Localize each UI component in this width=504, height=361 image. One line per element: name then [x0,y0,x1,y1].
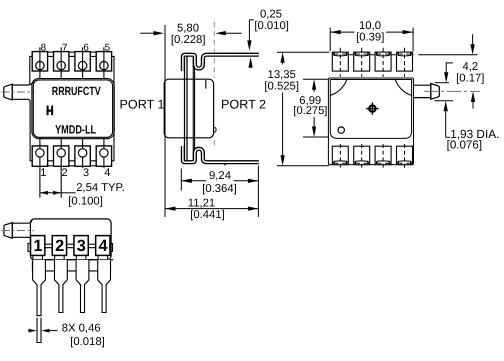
svg-text:6: 6 [83,42,89,53]
svg-text:4,2: 4,2 [462,61,478,73]
svg-text:[0.228]: [0.228] [171,34,206,46]
svg-text:2,54 TYP.: 2,54 TYP. [76,182,125,194]
svg-text:1: 1 [33,237,42,255]
svg-text:9,24: 9,24 [209,170,231,182]
svg-text:3: 3 [83,167,89,179]
svg-text:1: 1 [40,167,46,179]
svg-text:YMDD-LL: YMDD-LL [55,122,96,136]
svg-text:[0.39]: [0.39] [356,31,384,43]
svg-text:4: 4 [104,167,110,179]
svg-text:PORT 1: PORT 1 [120,98,165,112]
svg-text:PORT 2: PORT 2 [221,98,266,112]
svg-text:0,25: 0,25 [260,9,282,21]
svg-text:[0.100]: [0.100] [68,196,103,208]
svg-text:7: 7 [62,42,67,53]
svg-text:[0.010]: [0.010] [254,20,289,32]
svg-text:10,0: 10,0 [359,20,381,32]
svg-text:[0.076]: [0.076] [447,139,482,152]
svg-text:[0.364]: [0.364] [202,183,237,195]
svg-text:[0.441]: [0.441] [190,209,225,221]
svg-text:13,35: 13,35 [268,69,296,81]
svg-text:8: 8 [41,42,47,53]
svg-text:2: 2 [62,167,68,179]
svg-text:5: 5 [105,42,111,53]
svg-text:[0.018]: [0.018] [70,336,105,348]
svg-text:3: 3 [77,237,86,255]
svg-text:2: 2 [55,237,64,255]
svg-text:11,21: 11,21 [188,198,215,210]
svg-text:RRRUFCTV: RRRUFCTV [52,84,101,98]
svg-text:[0.275]: [0.275] [293,105,327,117]
svg-text:5,80: 5,80 [177,23,199,35]
svg-text:[0.525]: [0.525] [264,81,299,93]
svg-text:[0.17]: [0.17] [456,73,484,85]
svg-text:8X 0,46: 8X 0,46 [62,323,101,335]
svg-text:4: 4 [98,237,107,255]
